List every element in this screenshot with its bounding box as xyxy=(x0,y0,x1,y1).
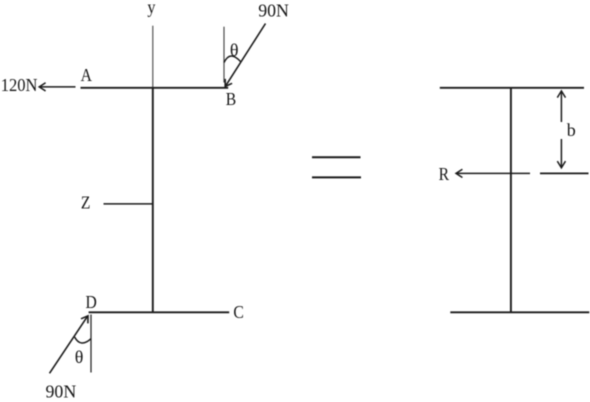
wire right figure vertical member xyxy=(510,87,512,312)
node y (axis label) xyxy=(147,0,156,17)
wire top horizontal member A-B xyxy=(81,87,229,89)
equals sign bottom bar xyxy=(312,176,361,178)
node Z xyxy=(81,192,91,212)
force arrow 90N into D (up-right diagonal) xyxy=(50,316,89,374)
equals sign top bar xyxy=(312,156,361,158)
svg-text:R: R xyxy=(439,164,450,184)
wire thin vertical reference line below D xyxy=(90,315,92,373)
label R xyxy=(439,164,450,184)
dimension arrow b upper segment pointing up xyxy=(557,91,565,122)
svg-text:90N: 90N xyxy=(258,0,289,20)
label 90N top xyxy=(258,0,289,20)
node C xyxy=(233,302,243,322)
angle arc theta at D xyxy=(75,337,91,343)
angle arc theta at B xyxy=(224,56,241,63)
svg-text:C: C xyxy=(233,302,243,322)
label 90N bottom xyxy=(46,382,77,402)
wire vertical member of bracket xyxy=(152,87,154,312)
wire y-axis vertical reference line xyxy=(152,26,154,87)
label 120N xyxy=(1,76,38,96)
wire thin vertical reference line above B xyxy=(223,27,225,83)
node A xyxy=(81,65,93,85)
svg-text:D: D xyxy=(86,292,97,312)
label b xyxy=(567,120,576,140)
node B xyxy=(226,89,236,109)
force arrow R pointing left xyxy=(456,169,530,177)
node D xyxy=(86,292,97,312)
wire right figure bottom horizontal line xyxy=(450,311,589,313)
svg-text:y: y xyxy=(147,0,156,17)
svg-text:Z: Z xyxy=(81,192,91,212)
wire short horizontal line at Z xyxy=(104,203,154,205)
svg-text:θ: θ xyxy=(75,347,84,367)
force arrow 120N pointing left xyxy=(39,83,75,91)
svg-text:90N: 90N xyxy=(46,382,77,402)
wire right figure top horizontal line xyxy=(440,87,584,89)
svg-text:B: B xyxy=(226,89,236,109)
svg-text:b: b xyxy=(567,120,576,140)
dimension arrow b lower segment pointing down xyxy=(557,139,565,168)
force arrow 90N into B (down-left diagonal) xyxy=(225,24,265,87)
svg-text:A: A xyxy=(81,65,93,85)
wire bottom horizontal member D-C xyxy=(89,311,230,313)
svg-text:θ: θ xyxy=(230,40,239,60)
wire short line right of R arrow xyxy=(540,172,589,174)
svg-text:120N: 120N xyxy=(1,76,38,96)
